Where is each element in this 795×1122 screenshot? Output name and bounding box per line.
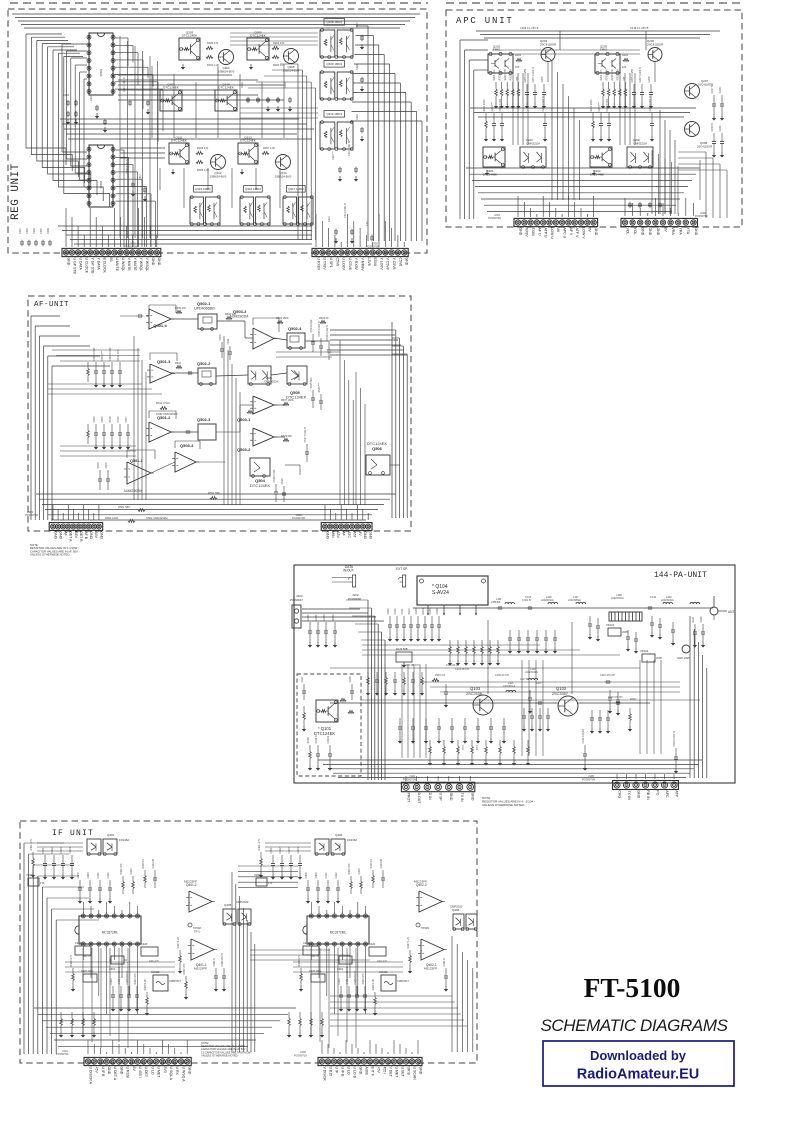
svg-text:U SCAN: U SCAN [412, 1067, 416, 1081]
svg-text:C519: C519 [281, 478, 284, 485]
svg-text:Q316 1MD3: Q316 1MD3 [245, 187, 261, 191]
svg-text:C301: C301 [19, 228, 22, 234]
svg-text:R204: R204 [515, 54, 522, 57]
svg-text:R429 1.8K: R429 1.8K [144, 978, 147, 990]
svg-text:Q402: Q402 [335, 833, 343, 837]
svg-text:DTC124EK: DTC124EK [314, 731, 335, 736]
svg-text:Q317 1MD3: Q317 1MD3 [288, 187, 304, 191]
svg-text:B1: B1 [109, 258, 113, 262]
svg-text:E5V8: E5V8 [373, 258, 377, 267]
svg-text:C402: C402 [279, 847, 282, 854]
svg-text:DTC124EK: DTC124EK [218, 86, 235, 90]
svg-text:M5223FP: M5223FP [184, 880, 197, 884]
svg-text:VR102: VR102 [640, 649, 649, 653]
svg-text:C5V8: C5V8 [335, 258, 339, 267]
svg-text:Q309 1MD3: Q309 1MD3 [326, 62, 342, 66]
svg-text:C509: C509 [219, 334, 222, 341]
svg-text:C129: C129 [387, 608, 390, 615]
svg-text:1SS362: 1SS362 [119, 838, 129, 842]
svg-text:PO390758: PO390758 [25, 513, 38, 517]
svg-text:D IN: D IN [428, 793, 432, 800]
svg-text:8V: 8V [588, 228, 592, 233]
svg-text:TP-U: TP-U [194, 929, 200, 933]
svg-text:J102: J102 [352, 593, 359, 597]
svg-text:APC UNIT: APC UNIT [456, 16, 514, 26]
svg-text:UPD4066BG: UPD4066BG [194, 306, 215, 310]
svg-text:C117 B: C117 B [520, 678, 528, 681]
svg-text:U LO8V: U LO8V [342, 258, 346, 271]
svg-text:CR101: CR101 [327, 735, 330, 743]
svg-text:C441 B: C441 B [443, 958, 446, 967]
svg-text:200B: 200B [622, 631, 628, 634]
svg-text:U IF B: U IF B [101, 1067, 105, 1078]
svg-text:U LO: U LO [346, 1067, 350, 1075]
svg-text:R203 3.9K: R203 3.9K [611, 68, 614, 80]
svg-text:C409: C409 [87, 872, 90, 879]
svg-text:R202 22K: R202 22K [606, 69, 609, 80]
svg-text:AF V: AF V [569, 228, 573, 236]
svg-text:R211 100K: R211 100K [590, 99, 593, 112]
svg-text:C312: C312 [328, 216, 331, 222]
svg-text:IN/OUT: IN/OUT [343, 569, 354, 573]
svg-text:A5T: A5T [352, 531, 356, 538]
svg-text:C404: C404 [69, 847, 72, 854]
svg-text:C121: C121 [315, 614, 318, 621]
svg-text:C123: C123 [323, 614, 326, 621]
svg-text:RB IN: RB IN [646, 790, 650, 800]
svg-text:C205 3.3/50: C205 3.3/50 [631, 68, 634, 82]
svg-text:U MET: U MET [157, 1067, 161, 1079]
svg-text:C425 100u: C425 100u [81, 970, 94, 973]
svg-text:L0023011A: L0023011A [661, 599, 674, 602]
svg-text:R503: R503 [97, 462, 100, 469]
svg-text:2SC3357: 2SC3357 [552, 692, 568, 696]
svg-text:R427 1.2K: R427 1.2K [177, 936, 180, 948]
svg-text:C404: C404 [297, 847, 300, 854]
svg-text:GND: GND [66, 258, 70, 266]
svg-text:U DISCR A: U DISCR A [88, 1067, 92, 1085]
svg-text:CMP2022: CMP2022 [236, 900, 249, 904]
svg-text:U8: U8 [556, 228, 560, 233]
svg-text:R511 47K: R511 47K [117, 349, 120, 360]
svg-text:R516: R516 [109, 416, 112, 423]
svg-text:Q502-1: Q502-1 [197, 301, 211, 306]
svg-text:Q401: Q401 [107, 833, 115, 837]
svg-text:MIN: MIN [331, 531, 335, 538]
svg-text:C420: C420 [141, 942, 148, 946]
svg-text:AF: AF [342, 531, 346, 535]
svg-text:Q208: Q208 [700, 141, 707, 145]
svg-text:Q502-4: Q502-4 [288, 326, 302, 331]
svg-text:C319: C319 [284, 82, 287, 88]
svg-text:YOL: YOL [633, 228, 637, 235]
svg-text:UNLESS OTHERWISE NOTED.: UNLESS OTHERWISE NOTED. [30, 553, 70, 557]
svg-text:R410 1K: R410 1K [142, 858, 145, 868]
svg-text:+5V: +5V [376, 1067, 380, 1074]
svg-text:2SC4118GR: 2SC4118GR [697, 144, 712, 148]
svg-text:GND: GND [656, 228, 660, 236]
svg-text:DTC124EK: DTC124EK [240, 139, 257, 143]
svg-text:200B: 200B [656, 657, 662, 660]
svg-text:C130: C130 [394, 608, 397, 615]
svg-text:TP403: TP403 [421, 926, 429, 930]
svg-text:GND: GND [471, 793, 475, 801]
svg-text:R410 1K: R410 1K [370, 858, 373, 868]
svg-text:GND: GND [107, 1067, 111, 1075]
svg-text:2SB624-BV3: 2SB624-BV3 [283, 68, 300, 72]
svg-text:Q503-2: Q503-2 [237, 447, 251, 452]
svg-text:R502 150K: R502 150K [276, 317, 289, 320]
svg-text:2SC2538: 2SC2538 [466, 692, 482, 696]
svg-text:U WSQL: U WSQL [121, 258, 125, 272]
svg-text:C419: C419 [75, 941, 82, 945]
svg-text:C113: C113 [475, 745, 477, 751]
svg-text:C208 0.001 B: C208 0.001 B [542, 96, 545, 112]
svg-text:CMP2022: CMP2022 [450, 905, 463, 909]
svg-text:NJM2902M: NJM2902M [124, 489, 142, 493]
svg-text:Y DATA: Y DATA [97, 258, 101, 271]
svg-text:R420 470: R420 470 [120, 863, 123, 874]
svg-text:GND: GND [358, 1067, 362, 1075]
svg-text:J104: J104 [409, 774, 415, 778]
svg-text:C420: C420 [369, 942, 376, 946]
svg-text:C517 0.022 B: C517 0.022 B [304, 427, 307, 443]
svg-text:C423: C423 [338, 978, 341, 985]
svg-text:C428 25V B: C428 25V B [354, 971, 357, 985]
svg-text:L0023011A: L0023011A [611, 597, 624, 600]
svg-text:R129: R129 [307, 737, 310, 744]
svg-text:C218: C218 [719, 87, 722, 94]
svg-text:GND: GND [594, 228, 598, 236]
svg-text:PO390748: PO390748 [292, 516, 305, 520]
svg-text:IF UNIT: IF UNIT [52, 829, 94, 838]
svg-text:X401: X401 [109, 967, 116, 971]
svg-text:PO390710: PO390710 [294, 1053, 307, 1057]
svg-text:C432 25V B: C432 25V B [221, 953, 224, 967]
svg-text:Y WSQL: Y WSQL [139, 258, 143, 272]
svg-text:C311: C311 [366, 220, 369, 226]
svg-text:GND: GND [405, 258, 409, 266]
svg-text:C510: C510 [117, 416, 120, 423]
svg-text:Q405: Q405 [224, 903, 232, 907]
svg-text:C410: C410 [97, 872, 100, 879]
svg-text:Q502-2: Q502-2 [197, 361, 211, 366]
svg-text:U B15: U B15 [328, 1067, 332, 1077]
svg-text:GND: GND [636, 790, 640, 798]
svg-text:8V: 8V [132, 1067, 136, 1072]
svg-text:C115 470 CH: C115 470 CH [600, 674, 615, 677]
svg-text:L3V8: L3V8 [367, 258, 371, 266]
svg-text:REG UNIT: REG UNIT [10, 163, 22, 220]
svg-text:YTA: YTA [686, 228, 690, 235]
svg-text:L0023011A: L0023011A [503, 685, 515, 688]
svg-text:C408: C408 [305, 872, 308, 879]
svg-text:C401: C401 [42, 847, 45, 854]
svg-text:PO: PO [655, 790, 659, 795]
svg-text:C126: C126 [349, 676, 352, 683]
svg-text:LOW U: LOW U [550, 228, 554, 240]
svg-text:2SB624-BV3: 2SB624-BV3 [275, 174, 292, 178]
svg-text:R117: R117 [692, 616, 695, 622]
svg-text:+5V: +5V [95, 1067, 99, 1074]
svg-text:U 455 I: U 455 I [138, 1067, 142, 1078]
svg-text:C412: C412 [107, 872, 110, 879]
svg-text:GND: GND [53, 531, 57, 539]
svg-text:Q301: Q301 [99, 69, 103, 77]
svg-text:U SET: U SET [400, 1067, 404, 1078]
svg-text:U SP1: U SP1 [329, 258, 333, 268]
svg-text:R202 22K: R202 22K [499, 69, 502, 80]
svg-text:68u CH: 68u CH [311, 955, 319, 958]
svg-text:R116 0.8: R116 0.8 [435, 674, 446, 677]
svg-text:PO390709: PO390709 [403, 777, 416, 781]
svg-text:TX8V: TX8V [531, 228, 535, 237]
svg-text:PO390711: PO390711 [56, 1052, 69, 1056]
svg-text:2SC4118GR: 2SC4118GR [540, 42, 556, 46]
svg-text:R302 2.2K: R302 2.2K [273, 63, 286, 67]
svg-text:C516 0.022 B: C516 0.022 B [326, 325, 329, 341]
svg-text:R507 100K: R507 100K [281, 399, 294, 402]
svg-text:DTC124EK: DTC124EK [250, 483, 271, 488]
svg-text:C217 B: C217 B [711, 85, 714, 94]
svg-text:C208 0.001 B: C208 0.001 B [649, 96, 652, 112]
svg-text:C515 0.001 B: C515 0.001 B [318, 321, 321, 337]
svg-text:U LO: U LO [150, 1067, 154, 1075]
svg-text:C403: C403 [288, 847, 291, 854]
svg-text:R107: R107 [536, 682, 542, 685]
svg-text:8V: 8V [358, 531, 362, 536]
svg-text:0.001 B: 0.001 B [522, 599, 531, 602]
svg-text:U DET A: U DET A [113, 1067, 117, 1081]
svg-text:R201 10K: R201 10K [600, 69, 603, 80]
svg-text:GND: GND [99, 531, 103, 539]
svg-text:C511: C511 [227, 338, 230, 344]
svg-text:CDB455C7: CDB455C7 [169, 980, 182, 983]
svg-text:C317: C317 [139, 174, 142, 180]
svg-text:R505 47K: R505 47K [175, 307, 186, 310]
svg-text:ANT: ANT [728, 610, 734, 614]
svg-text:U WSQ A: U WSQ A [181, 1067, 185, 1083]
svg-text:PO390647: PO390647 [290, 598, 303, 602]
svg-text:8V3: 8V3 [163, 1067, 167, 1073]
svg-text:LOW V: LOW V [581, 228, 585, 240]
svg-text:C206: C206 [648, 76, 651, 83]
svg-text:GND: GND [157, 258, 161, 266]
svg-text:C150 00 CH: C150 00 CH [495, 674, 509, 677]
svg-text:VR401: VR401 [254, 873, 262, 877]
svg-text:R401 4.7K: R401 4.7K [30, 838, 33, 850]
svg-text:VRA: VRA [671, 228, 675, 236]
svg-text:V DET: V DET [388, 1067, 392, 1078]
svg-text:TX IN: TX IN [460, 793, 464, 802]
svg-text:Q207: Q207 [701, 79, 708, 83]
svg-text:C414 4P: C414 4P [380, 858, 383, 868]
svg-text:C136: C136 [436, 608, 439, 615]
svg-text:R307 2.2K: R307 2.2K [263, 146, 276, 150]
svg-text:U SQL A: U SQL A [169, 1067, 173, 1081]
svg-text:PO390709: PO390709 [582, 777, 595, 781]
svg-text:C207 0.001 B: C207 0.001 B [639, 67, 642, 83]
svg-text:C425 100u: C425 100u [309, 970, 322, 973]
svg-text:DTC124EK: DTC124EK [182, 34, 199, 38]
svg-text:B IT F: B IT F [370, 1067, 374, 1076]
svg-text:C313 0.001 B: C313 0.001 B [348, 141, 351, 156]
svg-text:R529 56K: R529 56K [281, 435, 292, 438]
svg-text:CO402: CO402 [379, 970, 388, 974]
svg-text:C329: C329 [356, 114, 359, 120]
svg-text:R301 2.2K: R301 2.2K [207, 63, 220, 67]
svg-text:J403: J403 [296, 594, 303, 598]
svg-text:U DATA: U DATA [79, 258, 83, 271]
svg-text:C306: C306 [47, 228, 50, 234]
svg-text:R306 470: R306 470 [197, 146, 209, 150]
svg-text:C503 0.022: C503 0.022 [93, 347, 96, 361]
svg-text:C514 0.022: C514 0.022 [310, 319, 313, 333]
svg-text:S-AV24: S-AV24 [432, 590, 449, 596]
svg-text:R208 1.5K: R208 1.5K [617, 68, 620, 80]
svg-text:R211 100K: R211 100K [483, 99, 486, 112]
svg-text:A300: A300 [364, 1067, 368, 1075]
svg-text:Downloaded by: Downloaded by [590, 1048, 687, 1063]
svg-text:C142: C142 [650, 596, 657, 599]
svg-text:R201 10K: R201 10K [493, 69, 496, 80]
svg-text:U MUTE: U MUTE [115, 258, 119, 272]
svg-text:Q506: Q506 [372, 446, 383, 451]
svg-text:M5223FP: M5223FP [194, 966, 207, 970]
svg-text:C413: C413 [130, 868, 133, 875]
svg-text:C195 0.001: C195 0.001 [499, 98, 502, 112]
svg-text:R208 1.5K: R208 1.5K [510, 68, 513, 80]
svg-text:Y C5V8: Y C5V8 [392, 258, 396, 270]
svg-text:R504 100K: R504 100K [105, 516, 119, 520]
svg-text:R203 3.9K: R203 3.9K [504, 68, 507, 80]
svg-text:R104: R104 [422, 608, 425, 615]
svg-text:Y MUTE: Y MUTE [133, 258, 137, 272]
svg-text:L0023052A: L0023052A [568, 599, 581, 602]
svg-text:C402: C402 [51, 847, 54, 854]
svg-text:ATP: ATP [674, 790, 678, 797]
svg-text:CO402: CO402 [151, 970, 160, 974]
svg-text:AF U: AF U [537, 228, 541, 236]
svg-text:GND: GND [151, 258, 155, 266]
svg-text:C500: C500 [105, 462, 108, 469]
svg-text:2SB624-BV3: 2SB624-BV3 [210, 174, 227, 178]
svg-text:R423 47K: R423 47K [362, 973, 365, 984]
svg-text:C412: C412 [335, 872, 338, 879]
svg-text:GND: GND [363, 531, 367, 539]
svg-text:C5V8: C5V8 [398, 258, 402, 267]
svg-text:Q503-4: Q503-4 [180, 443, 194, 448]
svg-text:R447 1.2K: R447 1.2K [407, 936, 410, 948]
svg-text:B8V: B8V [74, 531, 78, 538]
svg-text:C313 0.001 B: C313 0.001 B [344, 203, 347, 218]
svg-text:M5223FP: M5223FP [424, 966, 437, 970]
svg-text:D OUT: D OUT [417, 793, 421, 805]
svg-text:C103 28 CH: C103 28 CH [455, 668, 469, 671]
svg-text:YRA: YRA [679, 228, 683, 236]
svg-text:GND: GND [89, 531, 93, 539]
svg-text:R109: R109 [630, 698, 636, 701]
svg-text:R401 4.7K: R401 4.7K [258, 838, 261, 850]
svg-text:C219 0.1 25V B: C219 0.1 25V B [630, 26, 649, 30]
svg-text:V C5V8: V C5V8 [386, 258, 390, 270]
svg-text:GND: GND [59, 531, 63, 539]
svg-text:Q501-3: Q501-3 [157, 359, 171, 364]
svg-text:U GP STB: U GP STB [73, 258, 77, 275]
svg-text:U IF B: U IF B [340, 1067, 344, 1078]
svg-text:C195 0.001: C195 0.001 [606, 98, 609, 112]
svg-text:PO390760: PO390760 [695, 214, 708, 218]
svg-text:TP402: TP402 [193, 926, 201, 930]
svg-text:R512 C513: R512 C513 [156, 401, 170, 405]
svg-text:C421 0.1 25V B: C421 0.1 25V B [346, 967, 349, 985]
svg-text:V DISCR: V DISCR [322, 1067, 326, 1082]
svg-text:10K: 10K [622, 66, 627, 69]
svg-text:Q315 1MD3: Q315 1MD3 [195, 187, 211, 191]
svg-text:R204: R204 [622, 54, 629, 57]
svg-text:R531 58K: R531 58K [208, 491, 220, 495]
svg-text:GND: GND [188, 1067, 192, 1075]
svg-text:C127: C127 [301, 676, 304, 683]
svg-text:C111: C111 [461, 745, 463, 751]
svg-text:J402: J402 [300, 1050, 306, 1054]
svg-text:U LO B: U LO B [352, 1067, 356, 1079]
svg-text:CHG: CHG [617, 790, 621, 798]
svg-text:C302: C302 [26, 228, 29, 234]
svg-text:C123 150 CH: C123 150 CH [404, 664, 419, 667]
svg-text:R506 22K: R506 22K [225, 313, 236, 316]
svg-text:C303: C303 [33, 228, 36, 234]
svg-text:Q308 1MD3: Q308 1MD3 [326, 20, 342, 24]
svg-text:X401: X401 [337, 967, 344, 971]
svg-text:C403: C403 [60, 847, 63, 854]
svg-text:R122: R122 [332, 614, 335, 621]
svg-text:ATC: ATC [347, 531, 351, 538]
svg-text:U IF: U IF [334, 1067, 338, 1074]
svg-text:4TK: 4TK [40, 882, 45, 885]
svg-text:R523 2K: R523 2K [319, 317, 329, 320]
svg-text:Q501-1: Q501-1 [130, 459, 143, 463]
svg-text:C204 ***: C204 *** [598, 102, 601, 112]
svg-text:MC3372ML: MC3372ML [330, 930, 347, 934]
svg-text:SCHEMATIC DIAGRAMS: SCHEMATIC DIAGRAMS [540, 1016, 728, 1035]
svg-text:8V: 8V [663, 228, 667, 233]
svg-text:C428 25V B: C428 25V B [126, 971, 129, 985]
svg-text:DET B: DET B [79, 531, 83, 542]
svg-text:U RX: U RX [175, 1067, 179, 1076]
svg-text:L0023011A: L0023011A [541, 599, 554, 602]
svg-text:2SB624-BV3: 2SB624-BV3 [218, 69, 235, 73]
svg-text:V WSQL: V WSQL [145, 258, 149, 272]
svg-text:R303 470: R303 470 [207, 41, 219, 45]
svg-text:V MR8V: V MR8V [361, 258, 365, 272]
svg-text:R305 2.2K: R305 2.2K [197, 168, 210, 172]
svg-text:R304 470: R304 470 [273, 41, 285, 45]
svg-text:FM61: FM61 [600, 48, 608, 52]
svg-text:GND: GND [694, 228, 698, 236]
svg-text:R120 56B: R120 56B [396, 647, 408, 651]
svg-text:10K: 10K [515, 66, 520, 69]
svg-text:C118 B: C118 B [315, 735, 318, 743]
svg-text:U C5V8: U C5V8 [348, 258, 352, 270]
svg-text:GND: GND [369, 531, 373, 539]
svg-text:R501 58K: R501 58K [118, 505, 130, 509]
svg-text:APC U: APC U [563, 228, 567, 239]
svg-text:R432 470: R432 470 [183, 963, 186, 974]
svg-text:U RSSI: U RSSI [126, 1067, 130, 1079]
svg-text:EXT SP: EXT SP [396, 567, 407, 571]
svg-text:AF-UNIT: AF-UNIT [34, 301, 69, 309]
